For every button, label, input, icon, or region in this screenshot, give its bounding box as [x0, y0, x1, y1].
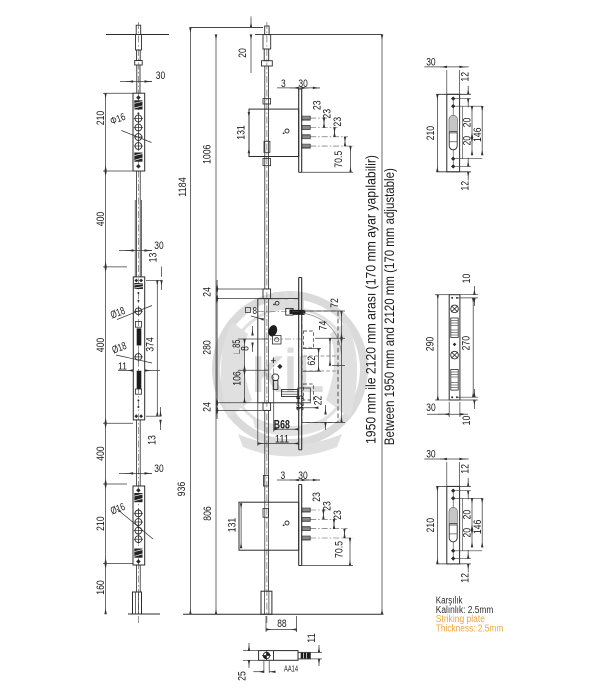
left strip: top gear box (210): [133, 93, 145, 171]
striking plate outline at 94.3: [447, 94, 460, 172]
dim 131 bottom case: [240, 504, 242, 549]
long dim lines 1184/936 and 1006/806: [189, 27, 191, 614]
aux latch block: [286, 308, 293, 315]
deadbolt: [282, 390, 298, 397]
svg-text:32.5: 32.5: [295, 395, 307, 411]
dims right of central case: 72/74/62/22/32.5: [303, 310, 345, 312]
bottom case rod + joint: [264, 502, 266, 550]
rod bottom end: [264, 550, 266, 591]
svg-text:74: 74: [317, 321, 329, 331]
dim 131 top case: [248, 112, 250, 153]
dim 88: [265, 616, 267, 632]
top case bolt tabs: [302, 116, 311, 120]
svg-text:146: 146: [472, 128, 484, 143]
dim 12 bottom: [467, 158, 469, 167]
svg-text:8: 8: [253, 305, 258, 317]
bottom faceplate segment: [298, 485, 300, 566]
plate screw holes: [451, 489, 455, 493]
svg-text:23: 23: [311, 100, 323, 110]
dim 12 top: [467, 86, 469, 95]
dims 20/20: [471, 498, 473, 530]
AA14 hub dim lines: [263, 660, 265, 673]
left strip: bottom gear box (210): [133, 486, 145, 565]
dim 25 (AA14 height): [243, 650, 259, 652]
center top ref lines: [190, 26, 263, 28]
cylinder fixing screw: [277, 364, 282, 369]
svg-text:12: 12: [460, 181, 472, 191]
svg-text:290: 290: [424, 337, 436, 352]
tab ext lines bottom: [310, 509, 326, 511]
dim 10 bottom: [456, 396, 478, 398]
left strip centerline: [137, 22, 139, 625]
tab center ext lines: [310, 117, 327, 119]
svg-text:400: 400: [95, 446, 107, 461]
euro cylinder: [272, 374, 279, 381]
cyl center cross: [271, 360, 276, 362]
svg-text:10: 10: [461, 416, 473, 426]
diamond ext lines: [455, 105, 482, 107]
svg-text:24: 24: [202, 402, 214, 412]
svg-text:88: 88: [277, 618, 286, 630]
bottom lock case: [239, 502, 299, 550]
svg-text:11: 11: [306, 633, 318, 643]
latch lever dark blob: [267, 324, 279, 338]
ladder slot 1: [451, 318, 458, 338]
bottom case bolt tabs: [302, 508, 311, 512]
central case screw: [273, 304, 275, 306]
svg-text:1184: 1184: [177, 177, 189, 196]
svg-text:23: 23: [321, 501, 333, 511]
svg-text:160: 160: [95, 580, 107, 595]
svg-text:Thickness: 2.5mm: Thickness: 2.5mm: [436, 623, 504, 634]
center rod body: [264, 66, 266, 289]
svg-text:1950 mm ile 2120 mm arası (170: 1950 mm ile 2120 mm arası (170 mm ayar y…: [364, 155, 379, 444]
AA14 detail: [259, 651, 298, 661]
left strip: middle lock box (374): [133, 277, 144, 420]
latch bolt through plate: [293, 310, 305, 315]
dim 374: [146, 280, 161, 282]
left dim extension ticks: [103, 92, 133, 94]
svg-text:400: 400: [95, 338, 107, 353]
plate top/bottom ext lines: [436, 93, 471, 95]
svg-text:12: 12: [460, 573, 472, 583]
latch swing arc: [303, 313, 342, 354]
svg-text:400: 400: [95, 212, 107, 227]
dims 23/23/23/70.5 bottom case: [322, 510, 324, 519]
svg-text:20: 20: [462, 510, 474, 520]
svg-text:3: 3: [281, 470, 286, 482]
svg-text:12: 12: [460, 464, 472, 474]
striking plate outline at 486.4: [447, 486, 460, 564]
svg-text:B68: B68: [274, 419, 290, 431]
svg-text:8: 8: [240, 346, 252, 351]
central case rod: [264, 299, 266, 403]
left strip bottom line: [128, 613, 160, 615]
left dim chain line: [105, 93, 107, 171]
svg-text:210: 210: [425, 518, 437, 533]
label O8 with leader: [246, 308, 251, 313]
svg-text:KİL: KİL: [252, 346, 324, 404]
svg-text:106: 106: [231, 371, 243, 386]
dims L85 / 8 / 106: [238, 338, 268, 340]
dim 146: [481, 498, 483, 547]
svg-text:24: 24: [202, 287, 214, 297]
central faceplate segment: [298, 278, 300, 450]
svg-text:20: 20: [462, 118, 474, 128]
rod bottom + end bolt: [136, 565, 138, 592]
dims 20/20: [471, 106, 473, 138]
rod joint below central case: [263, 403, 271, 411]
svg-text:210: 210: [95, 111, 107, 126]
svg-text:72: 72: [329, 298, 341, 308]
svg-text:131: 131: [226, 518, 238, 533]
svg-text:30: 30: [154, 463, 163, 475]
svg-text:62: 62: [306, 356, 318, 366]
dim 12 bottom: [467, 550, 469, 559]
hub/cyl centerlines: [258, 311, 300, 313]
svg-text:23: 23: [332, 117, 344, 127]
svg-text:936: 936: [176, 482, 188, 497]
svg-text:23: 23: [311, 492, 323, 502]
dim 10 top: [460, 294, 478, 296]
svg-text:30: 30: [156, 70, 165, 82]
svg-text:70.5: 70.5: [334, 541, 346, 558]
dim 20 top: [250, 17, 252, 28]
svg-text:806: 806: [202, 506, 214, 521]
plate screw holes: [451, 96, 455, 100]
svg-text:22: 22: [313, 396, 325, 406]
svg-text:23: 23: [332, 510, 344, 520]
watermark emblem: [216, 292, 364, 457]
svg-text:280: 280: [202, 340, 214, 355]
dim 210 (plate): [436, 486, 438, 564]
top lock case: [249, 109, 299, 156]
svg-text:20: 20: [237, 48, 249, 58]
dim 210 (plate): [436, 94, 438, 172]
svg-text:13: 13: [147, 435, 159, 445]
dim 146: [481, 106, 483, 155]
svg-text:10: 10: [461, 274, 473, 284]
dim B68: [273, 383, 275, 432]
svg-text:AA14: AA14: [284, 665, 298, 674]
svg-text:30: 30: [426, 402, 435, 414]
diamond ext lines: [455, 497, 482, 499]
svg-text:12: 12: [460, 72, 472, 82]
dashed gearbox outline: [302, 311, 338, 422]
plate slot: [449, 116, 457, 150]
rod below central case: [264, 410, 266, 502]
svg-text:70.5: 70.5: [333, 151, 345, 168]
svg-text:210: 210: [425, 126, 437, 141]
dim 11 (AA14 bolt): [310, 651, 322, 653]
dim 290: [435, 294, 449, 296]
hole chain line: [461, 106, 463, 159]
top faceplate segment: [298, 89, 300, 172]
bottom reference line: [183, 613, 384, 615]
svg-text:374: 374: [144, 337, 156, 352]
central lock case: [258, 298, 299, 300]
svg-text:146: 146: [472, 520, 484, 535]
dims 23/23/23/70.5 top case: [323, 118, 325, 127]
svg-text:111: 111: [275, 433, 289, 445]
svg-text:25: 25: [236, 671, 248, 681]
handle hub: [273, 336, 282, 345]
left strip: spindle rod top: [136, 25, 141, 34]
dim 111: [257, 403, 259, 446]
hole chain line: [461, 498, 463, 551]
rod between box1-box2: [136, 171, 138, 277]
svg-text:1006: 1006: [201, 145, 213, 164]
dim 12 top: [467, 478, 469, 487]
center rod centerline: [266, 22, 268, 623]
dim 270: [472, 298, 474, 397]
rod joint above central case: [263, 289, 271, 299]
ladder slot 2: [451, 370, 458, 391]
bottom case screw: [283, 524, 285, 526]
svg-text:270: 270: [461, 336, 473, 351]
svg-text:30: 30: [298, 470, 307, 482]
right boundary dim line (adjustable): [381, 35, 383, 615]
svg-text:13: 13: [148, 253, 160, 263]
svg-text:131: 131: [235, 125, 247, 140]
top case screw: [283, 132, 285, 134]
svg-text:210: 210: [95, 516, 107, 531]
rod between box2-box3: [136, 420, 138, 486]
left strip: top reference line: [106, 34, 169, 36]
plate top/bottom ext lines: [436, 485, 471, 487]
svg-text:Between 1950 mm and 2120 mm (1: Between 1950 mm and 2120 mm (170 mm adju…: [382, 168, 397, 445]
dims left of central case: 24 / 280 / 24: [217, 288, 263, 290]
svg-text:30: 30: [154, 240, 163, 252]
center rod top: [265, 26, 269, 35]
plate slot: [449, 508, 457, 542]
